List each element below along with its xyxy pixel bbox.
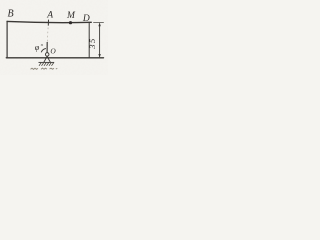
svg-text:B: B <box>8 8 14 19</box>
solid vertical line above O <box>46 42 48 53</box>
point M dot on top edge <box>69 21 72 24</box>
svg-text:O: O <box>50 47 56 56</box>
svg-text:A: A <box>46 11 53 21</box>
tick at A crossing top edge <box>47 20 49 26</box>
top dimension extension line <box>94 21 104 23</box>
support ground line <box>39 61 55 63</box>
plate left edge <box>6 21 8 57</box>
dimension line 35 <box>98 22 100 57</box>
plate right edge <box>88 23 90 58</box>
plate bottom edge (extended right as dimension extension) <box>6 57 103 59</box>
angle arc phi at O <box>41 49 46 53</box>
svg-text:35: 35 <box>87 37 97 50</box>
svg-text:M: M <box>66 11 76 21</box>
support triangle <box>44 56 51 62</box>
pivot circle at O <box>45 53 49 57</box>
plate top edge BD <box>7 21 91 22</box>
dashed vertical line A to O <box>46 28 49 43</box>
background <box>0 0 108 75</box>
support hatching <box>39 63 54 66</box>
svg-text:φ: φ <box>35 43 40 52</box>
scan noise smudge below support <box>31 68 58 69</box>
svg-text:D: D <box>82 14 90 24</box>
paper grain noise <box>0 0 108 75</box>
